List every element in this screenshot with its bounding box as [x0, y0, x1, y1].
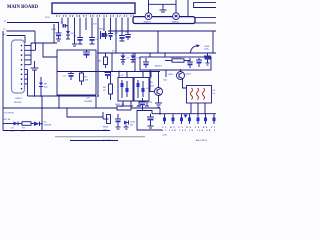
- svg-text:5.0V: 5.0V: [149, 82, 154, 84]
- wire pin lead p9: [110, 18, 112, 34]
- junction bus3 x160: [159, 113, 161, 115]
- junction y70 x181: [180, 69, 182, 71]
- svg-text:IC01: IC01: [45, 17, 50, 19]
- diode D601 zener: [66, 31, 74, 39]
- wire pin lead p12: [127, 18, 129, 35]
- wire long vertical p7: [97, 18, 99, 97]
- svg-text:12V: 12V: [86, 98, 90, 100]
- ground under pin p3: [72, 44, 77, 46]
- wire drop x127: [126, 72, 128, 78]
- wire drop x143: [142, 72, 144, 78]
- diode D604 zener on bus2: [131, 53, 141, 62]
- wire feed left of IC: [7, 23, 59, 34]
- svg-text:MAIN BOARD: MAIN BOARD: [7, 4, 38, 10]
- wire pin lead p5: [85, 18, 87, 31]
- svg-text:C609: C609: [149, 86, 155, 88]
- wire bottom stub: [70, 140, 118, 142]
- wire branch step: [67, 108, 103, 117]
- wire left rail x3: [2, 31, 4, 131]
- wire pin lead p1: [61, 18, 63, 25]
- arrow pointer: [191, 44, 201, 53]
- capacitor C619 electrolytic mid: [105, 72, 114, 80]
- wire bus link x213: [212, 31, 214, 53]
- svg-text:R605 1/8W: R605 1/8W: [170, 57, 182, 59]
- bus net B3 y113: [152, 113, 216, 115]
- IC U601 main processor: [52, 3, 135, 14]
- bus net B2 y53: [98, 52, 216, 54]
- svg-text:SW601: SW601: [144, 21, 152, 23]
- transformer T601: [187, 86, 216, 104]
- wire drop x151: [150, 72, 152, 78]
- svg-text:C614: C614: [130, 122, 136, 124]
- audio box frame: [140, 57, 211, 70]
- wire inner y71: [57, 71, 160, 73]
- transistor Q601: [168, 70, 192, 80]
- capacitor C613 in audio box: [143, 58, 149, 68]
- svg-text:KEYBD: KEYBD: [14, 102, 22, 104]
- wire pin lead p2: [67, 18, 69, 32]
- wire vertical above S601: [148, 0, 150, 13]
- wire step x43: [43, 43, 57, 57]
- junction y96 x41: [40, 95, 42, 97]
- wire top link: [149, 3, 177, 5]
- wire net y130: [3, 130, 110, 132]
- capacitor C611 electrolytic in box: [83, 50, 93, 58]
- capacitor C604: [89, 38, 99, 45]
- wire y43: [31, 42, 57, 44]
- capacitor C608 near connector: [31, 61, 39, 96]
- transistor Q602: [146, 88, 163, 96]
- capacitor C614 in audio box: [187, 58, 193, 68]
- capacitor C612 in box: [63, 72, 74, 81]
- output row component 1: [163, 114, 166, 124]
- wire step x25: [24, 36, 26, 44]
- svg-text:SW602: SW602: [172, 21, 180, 23]
- output row component 7: [213, 114, 216, 124]
- capacitor C602 electrolytic vertical: [56, 33, 65, 41]
- resistor R604 vertical under bus2: [99, 53, 108, 68]
- capacitor C606: [115, 33, 125, 42]
- svg-text:X601: X601: [99, 29, 105, 31]
- wire top right bracket: [194, 3, 216, 8]
- chassis gray line: [55, 136, 145, 138]
- output row component 2: [172, 114, 175, 124]
- bus net B1 y31: [108, 30, 216, 32]
- output row component 4: [188, 114, 191, 124]
- wire long vertical p10: [115, 18, 117, 54]
- diode D603 zener on bus2: [121, 53, 130, 64]
- svg-text:POWER: POWER: [84, 101, 93, 103]
- capacitor C615 electrolytic in audio box: [196, 58, 205, 67]
- junction y71 x119: [118, 71, 120, 73]
- wire pin lead p6: [91, 18, 93, 38]
- svg-text:AW-17B 02: AW-17B 02: [196, 139, 208, 142]
- svg-text:R603: R603: [103, 127, 109, 129]
- wire drop x59: [58, 96, 60, 108]
- diode D605 bottom: [124, 121, 137, 130]
- junction y71 x97: [97, 71, 99, 73]
- wire bar right lower: [194, 22, 216, 24]
- svg-text:TO KEYB: TO KEYB: [4, 113, 14, 115]
- connector CN601: [12, 40, 25, 93]
- wire net y108: [3, 107, 117, 109]
- regulator block RG2: [134, 78, 149, 102]
- capacitor C601 electrolytic horizontal: [60, 22, 68, 27]
- crystal X601: [99, 29, 107, 40]
- svg-text:CN601: CN601: [15, 98, 23, 100]
- wire step x35: [34, 31, 36, 43]
- svg-text:1N4148: 1N4148: [44, 125, 52, 127]
- svg-text:Q601: Q601: [186, 74, 192, 76]
- wire Q601 emitter: [183, 79, 187, 89]
- wire T601 pin3: [204, 103, 206, 114]
- resistor R607 key: [18, 122, 34, 133]
- wire Q602 collector up: [158, 72, 160, 88]
- capacitor C605: [108, 34, 117, 41]
- wire mid drop x135: [134, 53, 136, 72]
- connector bar P601: [133, 17, 195, 24]
- junction y108 x59: [58, 107, 60, 109]
- wire drop x42: [41, 96, 43, 131]
- junction y96 x34: [34, 95, 36, 97]
- svg-text:4148: 4148: [10, 131, 16, 133]
- bracket net left: [137, 111, 162, 131]
- wire x150 link: [149, 70, 151, 92]
- output row component 6: [204, 114, 207, 124]
- output row diode blue: [184, 115, 188, 119]
- wire y70 to Q601: [150, 69, 177, 71]
- diode D602 key: [34, 122, 52, 127]
- capacitor C603: [73, 36, 83, 45]
- wire pin lead p8: [103, 18, 105, 32]
- capacitor C616 electrolytic mid right: [139, 98, 153, 111]
- wire box feed x150: [149, 53, 151, 57]
- wire stub x166: [165, 70, 167, 77]
- ground under Q602: [155, 96, 162, 108]
- wire R601 to bus: [159, 108, 161, 114]
- svg-text:100u: 100u: [204, 49, 210, 51]
- wire bus link x158: [157, 31, 159, 53]
- junction y96 x97: [97, 95, 99, 97]
- diode IR601: [39, 77, 48, 96]
- resistor R601 power: [115, 104, 160, 110]
- transistor bars in RG1: [121, 80, 129, 98]
- power box frame: [57, 50, 96, 95]
- wire under blocks: [118, 100, 149, 102]
- regulator block RG1: [118, 78, 133, 102]
- switch S601 circle: [144, 13, 152, 23]
- wire drop x96b: [95, 96, 97, 108]
- wire pin lead p11: [121, 18, 123, 36]
- pins of CN601: [21, 45, 23, 90]
- wire net y96: [28, 95, 97, 97]
- wire stub x54: [53, 24, 55, 43]
- resistor R603 vertical bottom: [103, 112, 111, 132]
- svg-text:C471: C471: [162, 134, 168, 136]
- wire net y35 left: [7, 35, 26, 37]
- capacitor C617 electrolytic bottom: [112, 114, 121, 129]
- wire vertical x188 top: [187, 0, 189, 17]
- wire T601 pin2: [197, 103, 199, 114]
- wire pin lead p3: [74, 18, 76, 45]
- wire vertical above S602: [175, 0, 177, 13]
- svg-text:C616: C616: [147, 102, 153, 104]
- transistor bars in RG2: [137, 80, 145, 98]
- wire stubs CN601 upper: [25, 43, 36, 65]
- junction bus1 x118: [115, 30, 117, 32]
- resistor R605 in audio box: [165, 57, 190, 62]
- junction bus2 x97: [97, 52, 99, 54]
- wire net y31 left: [7, 30, 36, 32]
- resistor R602 vertical in box: [80, 72, 89, 86]
- svg-text:V601: V601: [168, 74, 174, 76]
- svg-text:KEY IN: KEY IN: [3, 119, 11, 121]
- junction x42 y123: [41, 123, 43, 125]
- wire mid drop x112: [111, 53, 113, 72]
- output row component 5: [197, 114, 200, 124]
- output row component 3: [180, 114, 183, 124]
- svg-text:12V: 12V: [93, 24, 97, 26]
- svg-text:AUDIO: AUDIO: [155, 65, 162, 68]
- ground drops under blocks: [121, 101, 149, 106]
- capacitor C607: [125, 32, 131, 40]
- switch S602 circle: [172, 13, 180, 23]
- resistor R606 vertical left of RG1: [103, 72, 113, 101]
- wire drop x119: [118, 72, 120, 78]
- capacitor C610 top right: [160, 4, 167, 12]
- capacitor C636 electrolytic right: [204, 46, 211, 65]
- wire T601 pin1: [190, 103, 192, 114]
- svg-text:10K: 10K: [85, 80, 89, 82]
- wire stubs CN601 lower: [25, 70, 28, 97]
- wire bar right upper: [194, 17, 216, 19]
- capacitor C618 electrolytic on bus3: [147, 114, 157, 128]
- wire pin lead p4: [79, 18, 81, 38]
- wire box feed x165: [164, 53, 166, 57]
- svg-text:C636: C636: [204, 46, 210, 48]
- diode D601 key: [3, 122, 18, 133]
